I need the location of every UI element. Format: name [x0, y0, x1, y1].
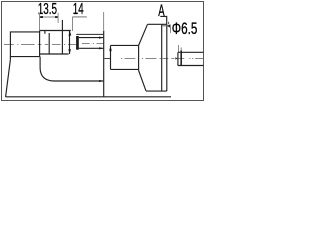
- step edge: [138, 45, 140, 70]
- barrel body (rect B) top: [40, 30, 71, 32]
- body bottom edge: [146, 90, 167, 92]
- spindle bottom edge: [79, 47, 104, 49]
- body top edge: [148, 23, 167, 25]
- spindle bar bottom: [178, 65, 204, 67]
- tick above dim: [168, 22, 170, 24]
- cone top slant: [139, 24, 148, 45]
- leader under A: [160, 16, 166, 24]
- ext line 13.5 left: [39, 13, 41, 31]
- ext line 14 right: [103, 12, 105, 30]
- body neck bottom: [111, 68, 139, 70]
- barrel body (rect B) bottom: [40, 53, 69, 55]
- ext line 13.5 right stub: [57, 13, 59, 23]
- edge inside barrel: [48, 33, 50, 54]
- svg-text:Φ6.5: Φ6.5: [172, 20, 198, 38]
- arrow right 13.5: [55, 16, 58, 18]
- svg-text:A: A: [158, 2, 164, 20]
- arrow on top edge: [99, 37, 103, 39]
- arrow on bottom edge: [99, 47, 103, 49]
- base bottom: [6, 96, 171, 98]
- edge bushing with dim arrows: [69, 31, 71, 55]
- spindle end plate: [76, 36, 79, 50]
- ext line 14 left: [72, 17, 74, 31]
- dim line 14: [73, 16, 87, 18]
- ext phi6.5 right: [178, 45, 180, 52]
- spindle bar pin: [180, 51, 182, 66]
- edge barrel right: [61, 20, 63, 54]
- dim line 13.5: [40, 16, 58, 18]
- face tick: [110, 49, 112, 52]
- body neck top: [111, 44, 139, 46]
- frame right edge with fillet: [40, 57, 103, 81]
- body right face: [166, 24, 168, 91]
- centerline right view: [104, 58, 203, 60]
- svg-text:14: 14: [73, 1, 84, 18]
- dim line phi6.5: [163, 25, 171, 27]
- spindle bar left face: [177, 52, 179, 65]
- edge A/B boundary: [39, 31, 41, 57]
- spindle bar top: [178, 51, 204, 53]
- anvil plate: [103, 31, 105, 97]
- pin ext tick: [180, 47, 182, 50]
- arrow phi6.5: [167, 24, 170, 27]
- body left face: [110, 45, 112, 69]
- cone bottom slant: [139, 71, 146, 91]
- thimble body (rect A): [10, 32, 39, 57]
- centerline knot at bar face: [175, 57, 178, 59]
- frame left edge: [6, 57, 11, 97]
- border frame: [2, 2, 204, 101]
- spindle upper step line: [76, 33, 103, 35]
- edge inside barrel upper stub: [44, 31, 46, 34]
- centerline left view: [4, 44, 103, 45]
- body inner edge: [161, 24, 163, 91]
- arrow on base edge: [99, 80, 103, 82]
- svg-text:13.5: 13.5: [38, 1, 57, 18]
- ext phi6.5 left: [170, 26, 172, 33]
- arrow left 13.5: [40, 16, 43, 18]
- spindle top edge: [79, 37, 104, 39]
